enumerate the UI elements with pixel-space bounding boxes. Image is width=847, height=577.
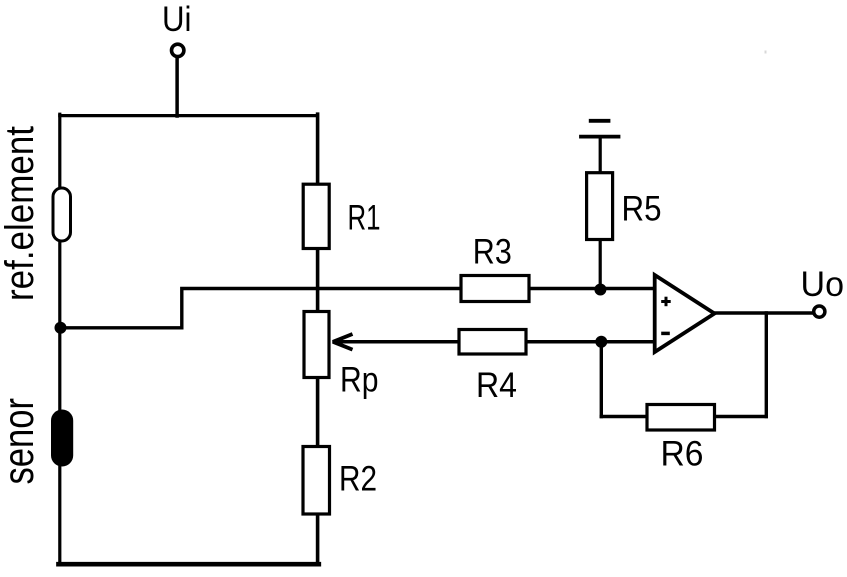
svg-text:R4: R4 [476, 366, 517, 405]
svg-text:R1: R1 [348, 199, 381, 238]
svg-text:Ui: Ui [162, 0, 192, 39]
svg-text:senor: senor [0, 398, 43, 485]
svg-text:Rp: Rp [340, 360, 379, 399]
svg-text:R3: R3 [473, 232, 512, 271]
svg-text:ref.element: ref.element [0, 126, 42, 301]
svg-text:R6: R6 [661, 434, 704, 473]
svg-text:Uo: Uo [801, 265, 845, 304]
svg-text:R2: R2 [339, 460, 377, 499]
svg-text:R5: R5 [622, 190, 662, 229]
